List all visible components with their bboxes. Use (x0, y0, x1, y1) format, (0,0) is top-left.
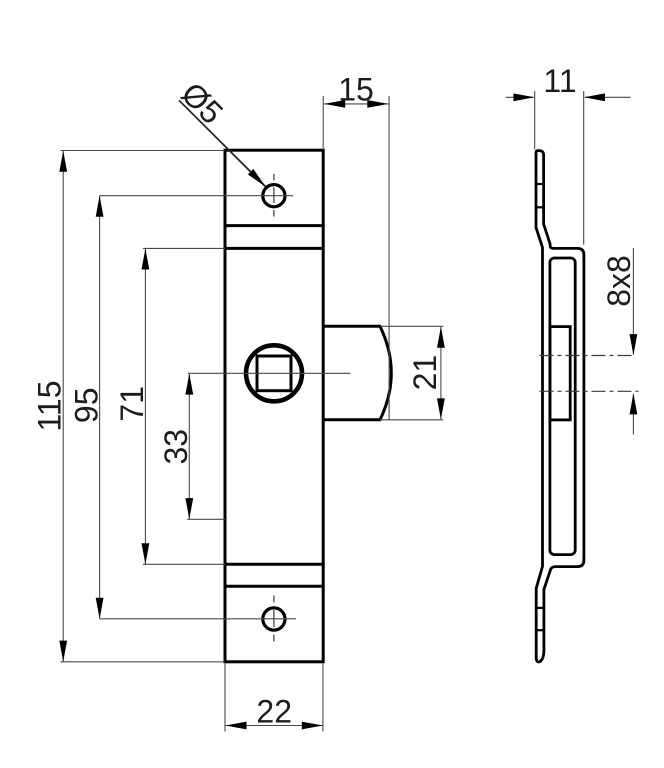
side view spindle hole center line bottom (540, 390, 639, 392)
dimension 8x8 line upper (632, 248, 634, 355)
dimension 21 top extension (380, 325, 443, 327)
dimension 115 extension top (61, 150, 226, 152)
faceplate division line top 2 (225, 247, 323, 250)
spindle follower circle (246, 345, 302, 401)
faceplate division line top 1 (225, 224, 323, 227)
dimension 33 text (158, 429, 194, 465)
dimension 11 extension left (534, 91, 536, 150)
dimension 95 bottom extension (bottom hole center line) (100, 618, 296, 620)
svg-text:15: 15 (338, 71, 374, 107)
top screw hole (263, 185, 285, 207)
dimension 22 arrow right (302, 722, 323, 730)
dimension 11 arrow pointing right (513, 93, 534, 101)
faceplate division line bottom 1 (225, 563, 323, 566)
dimension 8x8 arrow up (630, 393, 638, 414)
faceplate front view outline (225, 150, 323, 662)
side view outer outline (536, 151, 584, 662)
dimension 22 extension right (322, 664, 324, 732)
svg-text:115: 115 (32, 380, 68, 431)
dimension 8x8 arrow down (630, 334, 638, 355)
dimension 33 bottom extension (187, 518, 225, 520)
dimension 33 line (188, 374, 190, 519)
dimension 33 arrow down (185, 498, 193, 519)
diameter 5 leader line (179, 100, 266, 187)
dimension 33 arrow up (185, 374, 193, 395)
bottom screw hole vertical center line (273, 596, 275, 642)
side view top screw hole edge tick 2 (536, 206, 544, 208)
dimension 95 line (99, 196, 101, 619)
dimension 21 arrow down (437, 398, 445, 419)
latch bolt front view (323, 326, 391, 420)
dimension 95 arrow down (96, 598, 104, 619)
dimension 8x8 line lower (632, 394, 634, 435)
dimension 11 line left (506, 96, 534, 98)
svg-text:95: 95 (69, 388, 105, 424)
dimension 15 arrow left (324, 100, 345, 108)
faceplate division line bottom 2 (225, 585, 323, 588)
svg-text:8x8: 8x8 (601, 255, 637, 307)
svg-text:71: 71 (114, 386, 150, 422)
dimension 115 arrow up (59, 151, 67, 172)
side view latch bolt section (550, 327, 570, 420)
dimension 11 extension right (583, 91, 585, 245)
top screw hole vertical center line (273, 174, 275, 217)
dimension 115 arrow down (59, 641, 67, 662)
dimension 8x8 text (601, 255, 637, 307)
dimension 71 text (114, 386, 150, 422)
spindle square hole 8x8 (257, 356, 291, 391)
dimension 21 bottom extension (380, 419, 443, 421)
dimension 15 extension left (plate edge extended) (322, 96, 324, 150)
dimension 71 line (144, 249, 146, 564)
svg-text:33: 33 (158, 429, 194, 465)
dimension 15 arrow right (367, 100, 388, 108)
diameter 5 text (174, 75, 230, 131)
dimension 115 extension bottom (61, 661, 226, 663)
dimension 71 bottom extension (143, 563, 225, 565)
dimension 22 arrow left (226, 722, 247, 730)
dimension 22 extension left (224, 664, 226, 732)
dimension 95 top extension (top hole center line) (100, 195, 294, 197)
svg-text:21: 21 (407, 355, 443, 391)
side view inner case outline (550, 258, 575, 555)
dimension 95 arrow up (96, 196, 104, 217)
dimension 115 line (62, 151, 64, 662)
dimension 71 arrow up (142, 249, 150, 270)
dimension 95 text (69, 388, 105, 424)
side view bottom screw hole edge tick 1 (536, 607, 544, 609)
spindle horizontal center line (33 top extension) (188, 372, 351, 374)
bottom screw hole (263, 608, 285, 630)
dimension 15 line (324, 103, 388, 105)
side view top screw hole edge tick 1 (536, 183, 544, 185)
svg-text:22: 22 (256, 694, 292, 730)
side view bottom screw hole edge tick 2 (536, 629, 544, 631)
svg-text:11: 11 (543, 63, 576, 99)
dimension 21 arrow up (437, 327, 445, 348)
dimension 22 line (225, 725, 323, 727)
dimension 11 arrow pointing left (584, 93, 605, 101)
dimension 15 extension right (388, 96, 390, 420)
diameter 5 leader arrowhead (248, 169, 268, 189)
dimension 71 arrow down (142, 543, 150, 564)
dimension 21 line (440, 327, 442, 419)
side view spindle hole center line top (540, 355, 636, 357)
dimension 71 top extension (143, 247, 225, 249)
dimension 115 text (32, 380, 68, 431)
dimension 11 line right (585, 96, 631, 98)
dimension 21 text (407, 355, 443, 391)
